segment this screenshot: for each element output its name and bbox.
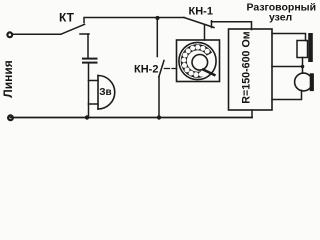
svg-text:КН-2: КН-2 [134,64,158,76]
svg-text:КН-1: КН-1 [189,6,213,18]
svg-text:Зв: Зв [99,87,111,98]
svg-text:КТ: КТ [59,10,75,24]
svg-text:Линия: Линия [1,60,15,97]
svg-text:узел: узел [269,11,292,23]
svg-text:R=150-600 Ом: R=150-600 Ом [241,31,253,103]
